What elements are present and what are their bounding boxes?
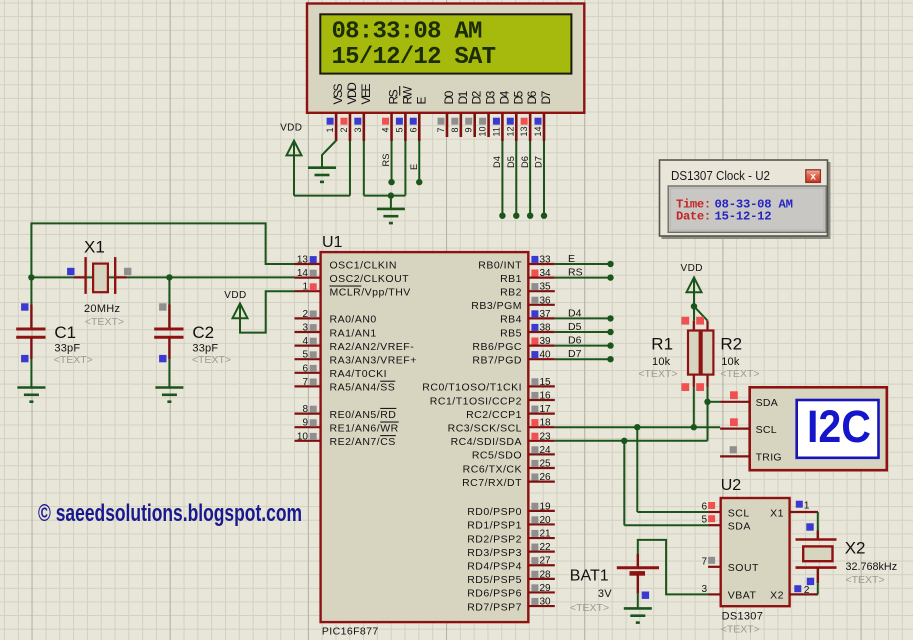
svg-text:RD6/PSP6: RD6/PSP6 [467, 588, 522, 600]
svg-text:5: 5 [701, 515, 707, 526]
svg-text:D6: D6 [520, 156, 530, 168]
svg-text:RC3/SCK/SCL: RC3/SCK/SCL [448, 423, 522, 435]
svg-text:5: 5 [302, 350, 308, 361]
svg-text:08:33:08 AM: 08:33:08 AM [332, 19, 483, 46]
svg-text:<TEXT>: <TEXT> [192, 354, 231, 366]
svg-text:34: 34 [540, 268, 552, 279]
svg-text:27: 27 [540, 556, 552, 567]
svg-text:D7: D7 [534, 156, 544, 168]
svg-text:26: 26 [540, 472, 552, 483]
svg-text:5: 5 [394, 127, 404, 132]
svg-text:RA2/AN2/VREF-: RA2/AN2/VREF- [330, 341, 415, 353]
svg-text:7: 7 [302, 377, 308, 388]
svg-text:10k: 10k [721, 356, 740, 368]
svg-text:16: 16 [540, 391, 552, 402]
svg-text:PIC16F877: PIC16F877 [322, 626, 379, 638]
svg-text:10: 10 [478, 126, 488, 136]
svg-text:D0: D0 [442, 90, 456, 104]
svg-text:RD3/PSP3: RD3/PSP3 [467, 547, 522, 559]
svg-text:6: 6 [408, 127, 418, 132]
svg-text:22: 22 [540, 542, 552, 553]
svg-text:RE2/AN7/CS: RE2/AN7/CS [330, 436, 396, 448]
svg-text:20MHz: 20MHz [84, 303, 120, 315]
svg-text:RB1: RB1 [500, 273, 522, 285]
svg-text:RS: RS [387, 89, 401, 104]
svg-text:RB2: RB2 [500, 287, 522, 299]
svg-text:D5: D5 [506, 156, 516, 168]
svg-text:3: 3 [302, 323, 308, 334]
svg-text:21: 21 [540, 529, 552, 540]
svg-text:X1: X1 [770, 507, 784, 519]
svg-text:X2: X2 [845, 539, 866, 558]
svg-text:15-12-12: 15-12-12 [715, 210, 772, 224]
svg-text:28: 28 [540, 569, 552, 580]
svg-text:<TEXT>: <TEXT> [638, 368, 677, 380]
svg-text:RA1/AN1: RA1/AN1 [330, 327, 377, 339]
svg-text:2: 2 [302, 309, 308, 320]
svg-text:RB0/INT: RB0/INT [478, 259, 522, 271]
svg-text:4: 4 [302, 336, 308, 347]
svg-text:9: 9 [464, 127, 474, 132]
svg-text:VDD: VDD [280, 123, 302, 134]
svg-text:39: 39 [540, 336, 552, 347]
svg-text:35: 35 [540, 282, 552, 293]
svg-text:RD4/PSP4: RD4/PSP4 [467, 561, 522, 573]
svg-text:32.768kHz: 32.768kHz [846, 561, 898, 573]
svg-text:7: 7 [701, 556, 707, 567]
svg-text:38: 38 [540, 323, 552, 334]
svg-text:D3: D3 [484, 90, 498, 104]
svg-text:15: 15 [540, 377, 552, 388]
svg-text:SCL: SCL [756, 424, 777, 436]
svg-text:RC0/T1OSO/T1CKI: RC0/T1OSO/T1CKI [422, 382, 522, 394]
svg-text:10k: 10k [652, 356, 671, 368]
svg-text:SDA: SDA [728, 521, 751, 533]
svg-text:x: x [810, 171, 816, 182]
svg-text:17: 17 [540, 404, 552, 415]
svg-text:RB5: RB5 [500, 327, 522, 339]
svg-text:25: 25 [540, 459, 552, 470]
svg-text:RS: RS [568, 267, 583, 279]
svg-text:RD0/PSP0: RD0/PSP0 [467, 506, 522, 518]
svg-text:RB3/PGM: RB3/PGM [471, 300, 522, 312]
svg-text:36: 36 [540, 295, 552, 306]
svg-text:BAT1: BAT1 [570, 567, 609, 584]
svg-text:RA3/AN3/VREF+: RA3/AN3/VREF+ [330, 355, 417, 367]
svg-text:37: 37 [540, 309, 552, 320]
svg-text:11: 11 [491, 127, 501, 136]
svg-text:Date:: Date: [676, 210, 711, 224]
svg-text:VSS: VSS [331, 83, 345, 104]
svg-text:VDD: VDD [224, 290, 246, 301]
svg-text:RB6/PGC: RB6/PGC [472, 341, 522, 353]
svg-text:R2: R2 [720, 334, 742, 353]
svg-text:VDD: VDD [345, 82, 359, 105]
svg-text:1: 1 [302, 282, 308, 293]
svg-text:SOUT: SOUT [728, 562, 759, 574]
svg-text:7: 7 [436, 127, 446, 132]
svg-text:19: 19 [540, 501, 552, 512]
svg-text:SCL: SCL [728, 507, 750, 519]
svg-text:29: 29 [540, 583, 552, 594]
svg-text:RD1/PSP1: RD1/PSP1 [467, 520, 522, 532]
svg-text:E: E [409, 164, 419, 170]
svg-text:D6: D6 [525, 90, 539, 104]
svg-text:DS1307 Clock - U2: DS1307 Clock - U2 [671, 168, 770, 183]
svg-text:X2: X2 [770, 590, 784, 602]
svg-text:10: 10 [297, 431, 309, 442]
svg-text:13: 13 [519, 126, 529, 136]
svg-text:RC7/RX/DT: RC7/RX/DT [462, 477, 522, 489]
svg-text:D7: D7 [568, 348, 582, 360]
svg-text:RB7/PGD: RB7/PGD [472, 355, 522, 367]
svg-text:© saeedsolutions.blogspot.com: © saeedsolutions.blogspot.com [38, 500, 302, 527]
svg-text:U2: U2 [721, 477, 742, 494]
svg-text:40: 40 [540, 350, 552, 361]
svg-text:D6: D6 [568, 335, 582, 347]
svg-text:D4: D4 [492, 156, 502, 168]
svg-text:MCLR/Vpp/THV: MCLR/Vpp/THV [330, 287, 411, 299]
svg-text:2: 2 [804, 585, 810, 596]
svg-text:RD2/PSP2: RD2/PSP2 [467, 533, 522, 545]
svg-text:2: 2 [339, 127, 349, 132]
svg-text:X1: X1 [84, 238, 105, 257]
svg-text:R1: R1 [651, 334, 673, 353]
svg-text:RC2/CCP1: RC2/CCP1 [466, 409, 522, 421]
svg-text:24: 24 [540, 445, 552, 456]
svg-text:<TEXT>: <TEXT> [85, 316, 124, 328]
svg-text:14: 14 [297, 268, 309, 279]
svg-text:14: 14 [533, 126, 543, 136]
svg-text:20: 20 [540, 515, 552, 526]
svg-text:SDA: SDA [756, 397, 779, 409]
svg-text:RD7/PSP7: RD7/PSP7 [467, 601, 522, 613]
svg-text:4: 4 [381, 127, 391, 132]
svg-text:23: 23 [540, 431, 552, 442]
svg-text:3: 3 [701, 584, 707, 595]
svg-text:I2C: I2C [807, 401, 871, 452]
svg-text:8: 8 [450, 127, 460, 132]
svg-text:E: E [568, 253, 575, 265]
svg-text:VBAT: VBAT [728, 590, 757, 602]
svg-text:8: 8 [302, 404, 308, 415]
svg-text:RD5/PSP5: RD5/PSP5 [467, 574, 522, 586]
svg-text:1: 1 [325, 127, 335, 132]
svg-text:D2: D2 [470, 90, 484, 104]
svg-text:9: 9 [302, 418, 308, 429]
svg-text:D5: D5 [511, 90, 525, 104]
svg-text:<TEXT>: <TEXT> [570, 602, 609, 614]
svg-text:RW: RW [400, 86, 414, 105]
svg-text:TRIG: TRIG [756, 452, 782, 464]
svg-text:RC5/SDO: RC5/SDO [472, 450, 522, 462]
svg-text:RB4: RB4 [500, 314, 522, 326]
svg-text:D7: D7 [539, 90, 553, 104]
svg-text:33pF: 33pF [54, 342, 80, 354]
svg-text:<TEXT>: <TEXT> [721, 624, 760, 636]
svg-text:RE1/AN6/WR: RE1/AN6/WR [330, 423, 399, 435]
svg-text:30: 30 [540, 597, 552, 608]
svg-text:18: 18 [540, 418, 552, 429]
svg-text:RE0/AN5/RD: RE0/AN5/RD [330, 409, 397, 421]
svg-text:RA4/T0CKI: RA4/T0CKI [330, 368, 388, 380]
svg-text:12: 12 [505, 126, 515, 136]
svg-text:3: 3 [353, 127, 363, 132]
svg-text:RC6/TX/CK: RC6/TX/CK [463, 463, 522, 475]
svg-text:<TEXT>: <TEXT> [720, 368, 759, 380]
svg-text:13: 13 [297, 255, 309, 266]
svg-text:6: 6 [302, 363, 308, 374]
svg-text:15/12/12 SAT: 15/12/12 SAT [332, 44, 496, 71]
svg-text:D1: D1 [456, 90, 470, 104]
svg-text:C1: C1 [54, 323, 76, 342]
svg-text:OSC1/CLKIN: OSC1/CLKIN [330, 259, 397, 271]
svg-text:1: 1 [804, 501, 810, 512]
svg-text:D5: D5 [568, 321, 582, 333]
svg-text:6: 6 [701, 502, 707, 513]
svg-text:RS: RS [381, 154, 391, 167]
svg-text:DS1307: DS1307 [722, 611, 764, 623]
svg-text:D4: D4 [568, 307, 582, 319]
svg-text:3V: 3V [598, 588, 612, 600]
svg-text:RC1/T1OSI/CCP2: RC1/T1OSI/CCP2 [430, 395, 522, 407]
svg-text:VEE: VEE [359, 83, 373, 104]
svg-text:33: 33 [540, 255, 552, 266]
svg-text:RA0/AN0: RA0/AN0 [330, 314, 377, 326]
svg-text:C2: C2 [192, 323, 214, 342]
svg-text:<TEXT>: <TEXT> [54, 354, 93, 366]
svg-text:OSC2/CLKOUT: OSC2/CLKOUT [330, 273, 410, 285]
svg-text:33pF: 33pF [192, 342, 218, 354]
svg-text:<TEXT>: <TEXT> [846, 574, 885, 586]
svg-text:RA5/AN4/SS: RA5/AN4/SS [330, 382, 396, 394]
svg-text:RC4/SDI/SDA: RC4/SDI/SDA [451, 436, 522, 448]
svg-text:VDD: VDD [681, 263, 703, 274]
svg-text:D4: D4 [497, 90, 511, 104]
svg-text:U1: U1 [322, 234, 343, 251]
